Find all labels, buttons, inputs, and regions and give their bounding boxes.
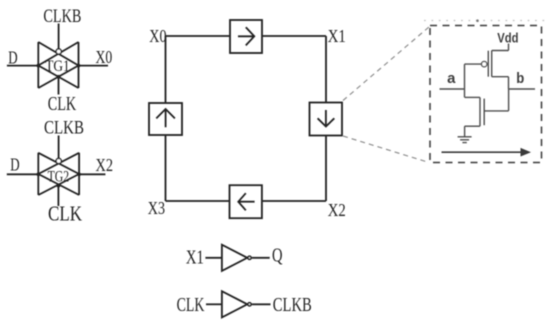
junction dot TG2 left <box>37 173 41 177</box>
wire CLK to inverter <box>206 303 222 305</box>
nmos M2 channel bar <box>479 97 481 126</box>
wire TG1 to CLK <box>58 77 60 95</box>
wire inverter to Q <box>252 257 270 259</box>
faint dotted artifact line above detail box <box>424 20 545 22</box>
pmos M1 gate bar <box>487 51 489 77</box>
arrow left in bottom box <box>238 193 254 210</box>
wire D to TG2 <box>7 173 39 175</box>
wire inverter to CLKB <box>252 303 271 305</box>
direction arrow head <box>521 148 532 157</box>
wire node a <box>440 88 465 90</box>
wire TG1 to X0 <box>79 65 109 67</box>
arrow right in top box <box>238 27 254 45</box>
box U-left (up-shift arrow) <box>149 103 182 135</box>
svg-text:X2: X2 <box>96 155 114 175</box>
svg-text:CLK: CLK <box>177 295 205 316</box>
svg-text:X2: X2 <box>328 200 346 220</box>
svg-text:X3: X3 <box>148 198 165 218</box>
svg-text:CLKB: CLKB <box>273 295 312 316</box>
svg-text:Q: Q <box>272 246 283 267</box>
nmos M2 gate wire <box>484 110 508 112</box>
pmos gate wire <box>465 63 482 65</box>
transmission gate TG1 <box>38 42 78 88</box>
pmos M1 drain stub <box>492 76 509 78</box>
inverter U2 bubble <box>248 256 251 259</box>
wire CLKB to TG1 <box>58 24 60 49</box>
wire pmos drain to node b <box>508 77 510 89</box>
ring wires: bottom segment X3-X2 <box>166 200 327 202</box>
junction dot TG1 left <box>37 64 41 68</box>
arrow down in right box <box>318 110 335 127</box>
box U-bottom (left-shift arrow) <box>230 185 262 218</box>
TG1 body triangles <box>38 42 78 88</box>
wire to ground <box>464 126 466 136</box>
wire CLKB to TG2 <box>58 136 60 159</box>
svg-text:CLK: CLK <box>48 93 77 115</box>
dashed callout line upper <box>343 27 430 101</box>
bubble on TG1 clkb gate <box>56 49 61 54</box>
detail circuit <box>440 44 536 157</box>
wire X1 to inverter <box>205 257 222 259</box>
stray dot artifact <box>476 19 479 22</box>
bubble on TG2 clkb gate <box>56 158 61 163</box>
svg-text:X1: X1 <box>186 248 204 269</box>
box U-top (right-shift arrow) <box>230 20 262 53</box>
junction dot TG1 bottom <box>57 75 61 79</box>
inverter U3 bubble <box>248 303 251 306</box>
svg-text:D: D <box>8 47 17 67</box>
pmos M1 source stub <box>492 50 509 52</box>
ground symbol <box>458 137 472 143</box>
ring wires: left segment <box>165 36 167 201</box>
pmos M1 gate bubble <box>482 61 487 66</box>
svg-text:CLKB: CLKB <box>44 117 84 138</box>
svg-text:TG1: TG1 <box>45 58 69 75</box>
wire left vertical a-branch <box>464 64 466 97</box>
svg-text:CLK: CLK <box>48 201 82 225</box>
svg-text:X0: X0 <box>149 26 166 46</box>
ring wires: right segment <box>325 36 327 201</box>
inverter U3 triangle <box>222 291 247 317</box>
direction arrow line <box>442 151 522 153</box>
svg-text:a: a <box>447 71 456 87</box>
nmos M2 gate bar <box>483 99 485 126</box>
wire TG2 to X2 <box>79 173 105 175</box>
box U-right (down-shift arrow) <box>310 103 343 136</box>
svg-text:CLKB: CLKB <box>43 6 81 27</box>
wire TG2 to CLK <box>57 186 59 206</box>
wire node b vertical <box>508 89 510 111</box>
junction dot TG2 right <box>77 173 81 177</box>
Vdd stub wire <box>508 44 510 51</box>
TG2 body triangles <box>38 153 79 195</box>
dashed detail box <box>430 26 542 163</box>
pmos M1 channel bar <box>491 51 493 77</box>
nmos M2 source stub top <box>465 96 480 98</box>
inverter U2 triangle <box>222 245 247 271</box>
junction dot TG1 right <box>77 64 81 68</box>
svg-text:Vdd: Vdd <box>497 29 518 45</box>
dashed callout line lower <box>343 136 429 163</box>
svg-text:b: b <box>516 71 524 87</box>
wire node b horizontal <box>509 88 536 90</box>
svg-text:X1: X1 <box>328 26 346 46</box>
transmission gate TG2 <box>38 153 79 195</box>
ring wires: top segment X0-X1 <box>166 35 327 37</box>
svg-text:X0: X0 <box>96 47 113 67</box>
wire D to TG1 <box>7 65 38 67</box>
arrow up in left box <box>156 109 175 127</box>
junction dot TG2 bottom <box>57 184 61 188</box>
svg-text:TG2: TG2 <box>48 168 70 185</box>
svg-text:D: D <box>10 154 19 174</box>
nmos M2 drain stub bottom <box>465 125 480 127</box>
